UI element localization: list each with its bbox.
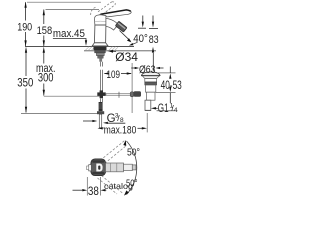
svg-text:158: 158 <box>37 25 53 37</box>
dimension max.180 line left arrow <box>98 127 103 129</box>
lever arm tip <box>132 165 136 170</box>
waste flange cap <box>142 72 161 76</box>
svg-text:catalog: catalog <box>104 181 133 191</box>
lever arm top view <box>106 163 124 172</box>
dashed lever at -50 <box>98 176 124 195</box>
dimension 158 bottom arrowhead <box>43 40 45 46</box>
knob inlay pupil <box>98 166 100 170</box>
350 reference line at hose end <box>21 112 97 114</box>
aerator <box>115 21 127 32</box>
38 extension lines <box>86 177 88 196</box>
waste body <box>146 85 156 92</box>
extension line top of lifted lever <box>27 1 101 3</box>
waste body dark band <box>145 82 157 85</box>
tube foot <box>99 127 104 129</box>
svg-text:83: 83 <box>149 34 159 46</box>
drain centerline extension <box>146 113 148 132</box>
diameter 34 leader arrow <box>113 50 117 52</box>
dimension 350 bottom arrowhead <box>25 107 27 113</box>
deck hatching right of faucet <box>109 47 119 51</box>
40-53 vertical with arrows <box>169 67 171 74</box>
extension line top of lever <box>46 9 100 11</box>
83 lower vertical line <box>152 53 154 71</box>
G3/8 double leader arrows <box>83 120 93 122</box>
G1 1/4 underline <box>157 110 178 112</box>
faucet lever handle <box>101 10 132 17</box>
waste body upper band <box>145 79 157 82</box>
40 degree reference tick <box>138 27 146 29</box>
40 degree stem arrowhead <box>142 22 144 28</box>
max.45 arrowhead to deck <box>85 40 87 46</box>
dashed lever at +50 <box>97 141 127 166</box>
nipple collar <box>97 111 104 114</box>
83 lower up arrowhead <box>152 47 154 53</box>
dimension 350 top arrowhead <box>25 47 27 53</box>
dimension 350 vertical line <box>25 53 27 113</box>
40 degree axis leader line <box>120 31 131 42</box>
dimension 190 bottom arrowhead <box>24 40 26 46</box>
deck top surface line <box>25 45 134 47</box>
40 degree axis arrowhead <box>127 38 131 42</box>
dimension max.300 vertical line <box>43 53 45 96</box>
svg-text:38: 38 <box>88 184 99 198</box>
mounting locknut dark <box>94 47 107 50</box>
dimension 190 top arrowhead <box>24 2 26 8</box>
109 right arrowhead <box>127 72 132 74</box>
waste flange lip <box>143 76 160 79</box>
max.45 underline leader <box>53 39 86 42</box>
arc top arrowhead <box>123 140 126 146</box>
tailpipe <box>145 100 151 110</box>
max.180 right arrow <box>138 127 143 129</box>
dimension 158 top arrowhead <box>43 9 45 15</box>
38 dimension arrows <box>73 189 83 191</box>
waste lower body <box>146 92 155 100</box>
dimension 40-53 extension lines <box>157 72 176 74</box>
hose tail tube <box>99 114 101 128</box>
svg-text:40-53: 40-53 <box>161 80 182 92</box>
40 degree vertical stem <box>142 16 144 23</box>
knob left tab <box>89 165 92 171</box>
cartridge cap under lever <box>94 15 106 25</box>
svg-text:190: 190 <box>17 21 32 33</box>
svg-text:109: 109 <box>107 69 121 81</box>
arc bottom arrowhead <box>124 190 129 195</box>
knob white inlay <box>96 164 102 172</box>
escutcheon base <box>92 43 108 46</box>
tee joint of pop-up rod <box>97 92 105 96</box>
lever arm narrow section <box>124 164 133 170</box>
dimension max.300 top arrowhead <box>43 47 45 53</box>
svg-text:40°: 40° <box>133 33 148 45</box>
svg-text:Ø34: Ø34 <box>115 50 138 64</box>
spout outlet extension line <box>131 63 133 113</box>
svg-text:300: 300 <box>38 73 54 85</box>
rod end fitting at waste <box>134 92 140 96</box>
faucet body <box>94 25 106 43</box>
lever top edge shading <box>101 10 131 14</box>
40 degree arc segment with arrow <box>132 42 138 44</box>
dimension diameter 63 <box>131 67 135 69</box>
cap seam line <box>95 20 106 22</box>
lever knob top view <box>91 159 106 176</box>
svg-text:Ø63: Ø63 <box>139 64 155 76</box>
swing arc <box>127 141 137 195</box>
dimension 83 top stem <box>152 16 154 23</box>
dimension 109 line <box>105 73 107 75</box>
locknut lower washer <box>96 53 104 56</box>
max.300 reference line at tee joint <box>44 95 101 97</box>
deck hatching left of faucet <box>85 47 94 51</box>
svg-text:G1: G1 <box>158 101 169 115</box>
supply hose below tee <box>100 98 102 102</box>
horizontal pop-up rod <box>106 94 134 96</box>
83 reference tick <box>149 27 158 29</box>
dimension 158 vertical line <box>43 10 45 47</box>
svg-text:350: 350 <box>17 78 33 90</box>
label G1 1/4 <box>151 107 156 109</box>
svg-text:50°: 50° <box>127 146 140 158</box>
pop-up rod / hose vertical pair <box>100 62 102 92</box>
dimension 190 vertical line <box>25 2 27 46</box>
dimension max.300 bottom arrowhead <box>43 90 45 96</box>
109 left arrowhead <box>104 72 109 74</box>
deck bottom line <box>84 50 156 52</box>
spout arm <box>106 18 118 30</box>
G3/8 threaded nipple <box>99 102 103 111</box>
waste lever ball knob <box>130 92 134 97</box>
phantom lifted lever dashes <box>91 2 116 16</box>
waste lever housing <box>134 91 142 97</box>
83 stem arrowhead <box>152 22 154 28</box>
svg-text:max.180: max.180 <box>104 124 137 136</box>
